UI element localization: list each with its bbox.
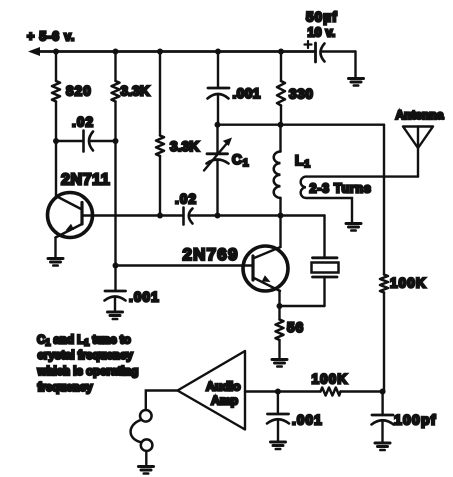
ground .001 base bypass <box>108 312 123 319</box>
svg-text:Audio: Audio <box>206 380 241 394</box>
resistor R 100K bottom <box>312 372 349 396</box>
resistor R 330 <box>277 81 314 106</box>
wire 100K to node <box>341 390 383 392</box>
resistor R 3.3K lower <box>156 136 199 157</box>
svg-text:2N711: 2N711 <box>61 172 110 189</box>
transistor Q 2N769 <box>183 245 289 291</box>
coupling coil 2-3 turns <box>301 177 418 222</box>
svg-text:frequency: frequency <box>38 382 94 394</box>
wire 2N769 collector <box>279 216 281 248</box>
resistor R 56 <box>276 306 305 358</box>
svg-text:which is operating: which is operating <box>37 366 139 378</box>
wire amp input <box>146 391 178 409</box>
svg-text:.02: .02 <box>175 192 197 207</box>
capacitor C .001 top <box>208 86 261 125</box>
node rail x281 <box>278 49 284 55</box>
node rail x56 <box>53 49 59 55</box>
svg-text:3.3K: 3.3K <box>121 84 150 99</box>
capacitor C .001 output <box>267 392 323 442</box>
ground phone jack <box>139 467 154 474</box>
svg-text:C1: C1 <box>232 152 250 169</box>
svg-text:100K: 100K <box>312 372 349 387</box>
svg-text:100K: 100K <box>390 276 427 291</box>
wire 100K right down <box>383 293 385 392</box>
crystal Y1 <box>312 258 339 306</box>
wire 2N711 emitter to ground <box>54 238 56 258</box>
capacitor C .02 feedback <box>175 192 325 225</box>
capacitor C 50uf electrolytic <box>305 10 356 78</box>
note text block <box>37 335 139 395</box>
variable capacitor C1 <box>204 125 250 216</box>
node x115 y265 <box>113 263 119 269</box>
ground 56 <box>272 360 287 367</box>
node x217 y215 <box>215 213 221 219</box>
transistor Q 2N711 <box>48 172 111 238</box>
svg-text:C1 and L1 tune to: C1 and L1 tune to <box>37 335 131 348</box>
wire oscillator line y215 <box>82 214 184 216</box>
op-amp audio amp <box>178 351 246 430</box>
ground 2-3 turns <box>346 224 361 231</box>
node rail x115 <box>113 49 119 55</box>
wire rail to 820 <box>55 52 57 82</box>
ground 2N711 emitter <box>48 259 63 266</box>
node x281 y215 <box>278 213 284 219</box>
svg-text:Antenna: Antenna <box>396 108 444 122</box>
svg-text:.001: .001 <box>292 413 323 428</box>
svg-text:820: 820 <box>66 84 92 99</box>
wire 820 to 2N711 collector <box>55 102 57 197</box>
power label +5-6v <box>27 30 75 44</box>
wire rail to .001 top <box>217 52 219 89</box>
resistor R 820 <box>52 81 92 102</box>
wire rail to 330 <box>280 52 282 82</box>
wire 330 to tank node <box>280 106 282 125</box>
wire 3.3K lower to osc line <box>159 156 161 216</box>
wire amp output <box>245 390 321 392</box>
svg-text:L1: L1 <box>295 153 311 170</box>
node x382 y391 <box>380 389 386 395</box>
node x160 y215 <box>157 213 163 219</box>
svg-text:.001: .001 <box>129 290 160 305</box>
svg-text:2N769: 2N769 <box>183 245 239 264</box>
svg-text:2-3 Turns: 2-3 Turns <box>310 182 372 196</box>
resistor R 3.3K upper <box>112 81 150 102</box>
capacitor C .001 base bypass <box>105 266 160 312</box>
wire crystal top <box>323 216 325 258</box>
node rail x160 <box>157 49 163 55</box>
wire 3.3K down to 2N769 base line <box>114 102 116 266</box>
svg-text:3.3K: 3.3K <box>170 139 199 154</box>
wire antenna branch down <box>383 125 385 275</box>
svg-text:.001: .001 <box>233 86 261 101</box>
svg-text:Amp: Amp <box>211 394 238 408</box>
node emitter junction <box>277 303 283 309</box>
svg-text:.02: .02 <box>72 115 94 130</box>
svg-text:56: 56 <box>287 320 304 335</box>
phone jack <box>131 410 153 465</box>
wire 2N769 emitter <box>278 291 280 307</box>
resistor R 100K right <box>380 275 427 293</box>
node rail x218 <box>215 49 221 55</box>
node x281 y124.7 <box>278 122 284 128</box>
svg-text:50µf: 50µf <box>306 10 338 25</box>
node output x278 <box>275 389 281 395</box>
ground 50uf <box>349 79 364 86</box>
wire crystal bottom to emitter <box>280 305 325 307</box>
ground 100pf <box>375 443 390 450</box>
svg-text:+ 5-6 v.: + 5-6 v. <box>27 30 75 44</box>
inductor L1 <box>274 125 311 216</box>
svg-text:10 v.: 10 v. <box>308 26 336 40</box>
svg-text:crystal frequency: crystal frequency <box>38 350 134 362</box>
svg-text:330: 330 <box>289 87 314 102</box>
capacitor C .02 left <box>56 115 116 152</box>
ground .001 output <box>271 442 286 449</box>
node x218 y124.7 <box>215 122 221 128</box>
wire 2N769 base <box>116 264 254 266</box>
wire tank node to antenna branch <box>218 123 385 125</box>
capacitor C 100pf <box>372 392 437 443</box>
node x56 y141 <box>53 138 59 144</box>
wire rail to 3.3K <box>114 52 116 82</box>
svg-text:100pf: 100pf <box>394 412 437 428</box>
wire rail to 3.3K lower <box>159 52 161 136</box>
node x115 y141 <box>113 138 119 144</box>
antenna <box>396 108 444 177</box>
wire power rail with arrow <box>28 47 316 56</box>
